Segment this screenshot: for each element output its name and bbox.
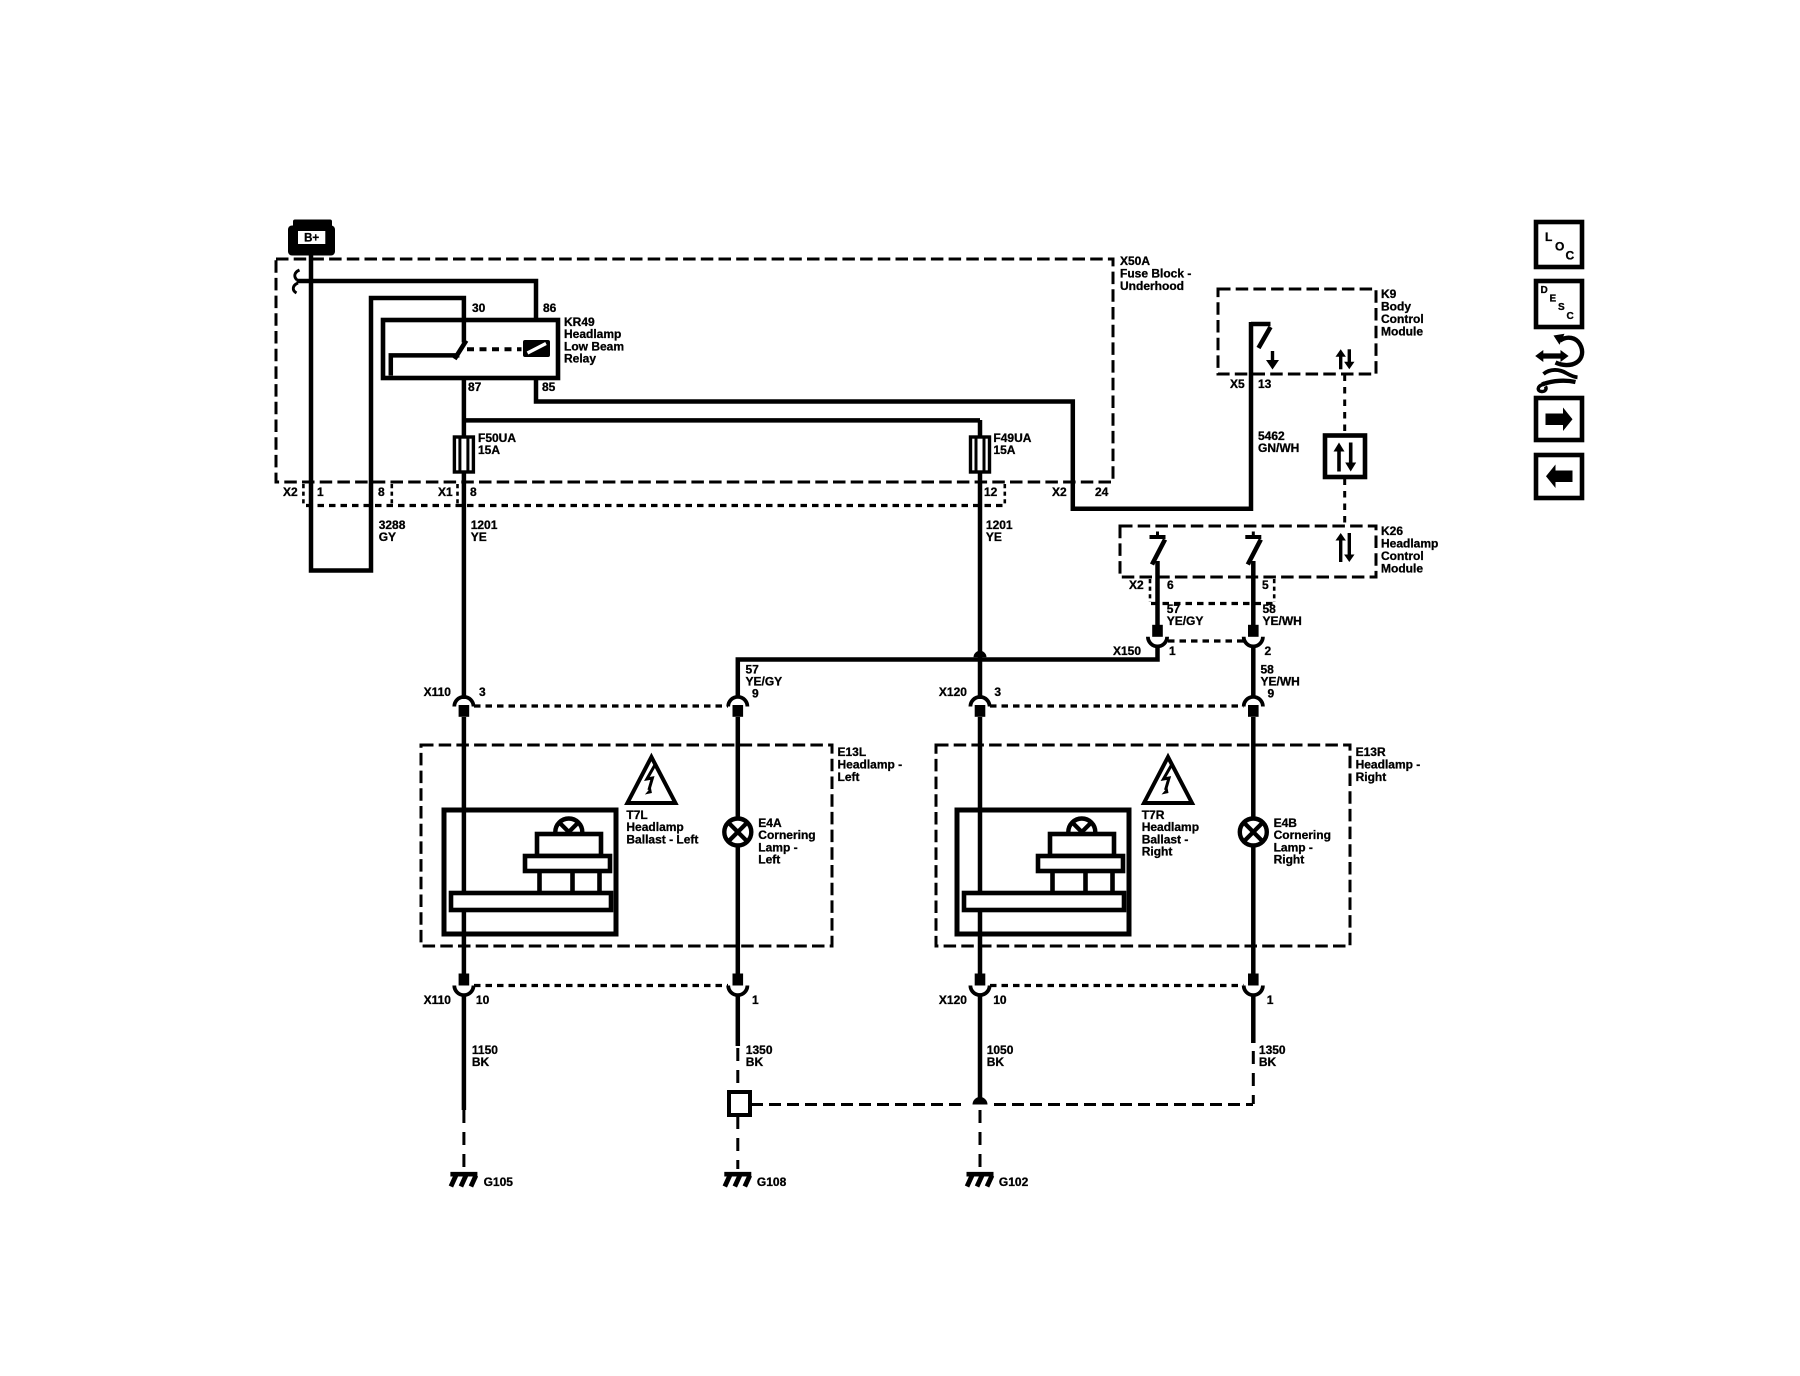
wire label 1150 BK: [472, 1043, 498, 1069]
wire to cornering lamp E4A: [736, 717, 741, 974]
crossover hop at 1050 BK wire: [973, 1097, 988, 1104]
cornering lamp E4B: [1240, 819, 1267, 846]
svg-text:1: 1: [1169, 644, 1176, 658]
K26 serial data arrows: [1336, 533, 1355, 562]
svg-text:85: 85: [542, 380, 556, 394]
wire 1201 YE left down to X110: [462, 472, 467, 700]
relay KR49 label: [564, 315, 624, 366]
svg-text:10: 10: [993, 993, 1007, 1007]
svg-text:Relay: Relay: [564, 352, 596, 366]
wire label 58 YE/WH 9: [1261, 663, 1300, 689]
dotted connector line X110 bottom: [474, 984, 728, 987]
svg-text:BK: BK: [472, 1055, 490, 1069]
wire label 57 YE/GY 9: [746, 663, 783, 689]
svg-text:Right: Right: [1142, 845, 1173, 859]
wire through left ballast: [462, 717, 467, 974]
crossover hop at 1201 YE wire: [974, 651, 987, 658]
wire label 58 YE/WH (upper): [1263, 602, 1302, 628]
svg-text:YE: YE: [471, 530, 487, 544]
wire 58 YE/WH from X150-2 down: [1251, 646, 1256, 697]
wire 1350 BK (E4A): [736, 995, 741, 1046]
svg-text:Module: Module: [1381, 325, 1423, 339]
svg-text:G105: G105: [484, 1175, 514, 1189]
fuse F49UA label: [993, 431, 1031, 457]
svg-text:1: 1: [317, 485, 324, 499]
connector X110-10: [459, 974, 470, 986]
svg-text:5: 5: [1262, 578, 1269, 592]
connector tick pin8: [390, 484, 393, 505]
svg-text:9: 9: [752, 687, 759, 701]
headlamp E13L label: [838, 745, 903, 784]
wire label 1350 BK (E4A): [746, 1043, 773, 1069]
wire label 1350 BK (E4B): [1259, 1043, 1286, 1069]
icon back arrow box: [1536, 455, 1582, 498]
icon wire routing glyph: [1535, 334, 1582, 392]
svg-text:Right: Right: [1356, 770, 1387, 784]
K26 right output switch: [1245, 535, 1261, 539]
connector 1 (E4B): [1248, 974, 1259, 986]
svg-text:8: 8: [470, 485, 477, 499]
wire K26 pin6 to X150-1: [1155, 561, 1160, 626]
svg-text:Left: Left: [838, 770, 860, 784]
icon next arrow box: [1536, 398, 1582, 440]
K26 left output switch: [1150, 535, 1166, 539]
svg-text:86: 86: [543, 301, 557, 315]
wire relay 85 to K9 pin 13: [536, 322, 1251, 509]
X150 connector dotted line: [1168, 639, 1244, 642]
connector tick pin12: [1003, 484, 1006, 505]
ballast T7L label: [626, 808, 698, 846]
wire label 57 YE/GY (upper): [1167, 602, 1204, 628]
wire label 1201 YE (left): [471, 518, 498, 544]
ground G108: [724, 1172, 751, 1177]
ballast T7R: [957, 810, 1129, 934]
svg-text:O: O: [1555, 240, 1564, 254]
svg-text:X120: X120: [939, 685, 967, 699]
svg-text:13: 13: [1258, 377, 1272, 391]
ballast T7L: [444, 810, 616, 934]
connector X150-1: [1152, 625, 1163, 637]
wire to cornering lamp E4B: [1251, 717, 1256, 974]
svg-text:YE/WH: YE/WH: [1261, 675, 1300, 689]
headlamp E13R label: [1356, 745, 1421, 784]
relay switch contact: [391, 320, 467, 376]
svg-text:Left: Left: [758, 853, 780, 867]
svg-text:S: S: [1558, 302, 1565, 313]
ground G105: [450, 1172, 477, 1177]
fusible link symbol: [293, 270, 299, 293]
svg-text:G108: G108: [757, 1175, 787, 1189]
svg-text:15A: 15A: [478, 443, 500, 457]
svg-text:X5: X5: [1230, 377, 1245, 391]
connector 1 (E4A): [733, 974, 744, 986]
headlamp E13R dashed box: [936, 745, 1350, 946]
fuse block label X50A: [1120, 254, 1191, 293]
serial data interface box: [1325, 436, 1365, 478]
headlamp E13L dashed box: [421, 745, 832, 946]
wire 1050 BK: [978, 995, 983, 1100]
svg-text:X120: X120: [939, 993, 967, 1007]
serial data box arrows: [1334, 443, 1357, 472]
wire through right ballast: [978, 717, 983, 974]
dotted connector line X110: [474, 704, 728, 707]
svg-text:C: C: [1567, 311, 1574, 322]
fuse block X50A dashed box: [276, 259, 1113, 482]
connector tick X1: [456, 484, 459, 505]
svg-text:L: L: [1545, 230, 1552, 244]
wire B+ feed down into fuse block: [311, 252, 464, 571]
dashed lead to G102: [979, 1110, 982, 1169]
svg-text:10: 10: [476, 993, 490, 1007]
dashed lead to G108: [736, 1116, 739, 1169]
wire label 3288 GY: [379, 518, 406, 544]
svg-text:E: E: [1550, 294, 1557, 305]
svg-text:2: 2: [1265, 644, 1272, 658]
high voltage triangle left: [627, 757, 675, 803]
svg-text:X150: X150: [1113, 644, 1141, 658]
svg-text:YE/GY: YE/GY: [746, 675, 783, 689]
wire 1350 BK (E4B): [1251, 995, 1256, 1043]
dashed lead to splice: [736, 1048, 739, 1090]
wire K26 pin5 to X150-2: [1251, 561, 1256, 626]
serial data dashed line lower: [1343, 479, 1346, 526]
module K26 dashed box: [1120, 526, 1376, 577]
dashed lead E4B to ground bus: [1252, 1051, 1255, 1104]
dashed ground bus to E4B: [751, 1103, 1253, 1106]
module K9 dashed box: [1218, 289, 1376, 374]
K9 control arrow: [1266, 351, 1279, 370]
K26 connector tick right: [1273, 579, 1276, 602]
wire 1201 YE right down to X120: [978, 472, 983, 700]
high voltage triangle right: [1144, 757, 1192, 803]
svg-text:G102: G102: [999, 1175, 1029, 1189]
svg-text:X1: X1: [438, 485, 453, 499]
svg-text:9: 9: [1268, 687, 1275, 701]
splice junction box: [729, 1092, 750, 1115]
connector X150-2: [1248, 625, 1259, 637]
wire label 1050 BK: [987, 1043, 1014, 1069]
ballast T7R label: [1142, 808, 1199, 859]
module K9 label: [1381, 287, 1424, 339]
svg-text:BK: BK: [1259, 1055, 1277, 1069]
relay armature dashed link: [467, 347, 522, 351]
svg-text:YE: YE: [986, 530, 1002, 544]
connector 9 (left): [728, 697, 747, 707]
cornering lamp E4A label: [758, 816, 815, 867]
svg-text:X2: X2: [1129, 578, 1144, 592]
K9 internal driver switch: [1251, 324, 1271, 348]
wire 1150 BK: [462, 995, 467, 1110]
svg-text:Module: Module: [1381, 562, 1423, 576]
fuse F50UA label: [478, 431, 516, 457]
svg-text:15A: 15A: [993, 443, 1015, 457]
K26 connector tick left: [1149, 579, 1152, 602]
K26 connector dotted line: [1151, 602, 1274, 605]
ground G102: [967, 1172, 994, 1177]
wire relay 87 output: [462, 376, 467, 438]
svg-text:3: 3: [479, 685, 486, 699]
connector X120-3: [970, 697, 989, 707]
wire 57 YE/GY from X150-1 to E4A: [738, 646, 1158, 697]
connector X110-3: [454, 697, 473, 707]
svg-text:X110: X110: [424, 685, 452, 699]
svg-text:87: 87: [468, 380, 482, 394]
cornering lamp E4A: [724, 819, 751, 846]
wire label 1201 YE (right): [986, 518, 1013, 544]
connector row dotted line X1/X2: [306, 504, 1003, 507]
svg-text:30: 30: [472, 301, 486, 315]
svg-text:1: 1: [752, 993, 759, 1007]
relay coil: [523, 340, 550, 357]
svg-text:YE/WH: YE/WH: [1263, 614, 1302, 628]
svg-text:Right: Right: [1274, 853, 1305, 867]
svg-text:24: 24: [1095, 485, 1109, 499]
svg-text:X2: X2: [283, 485, 298, 499]
svg-text:Ballast - Left: Ballast - Left: [626, 832, 698, 846]
connector tick X2: [302, 484, 305, 505]
svg-text:D: D: [1541, 285, 1548, 296]
svg-text:YE/GY: YE/GY: [1167, 614, 1204, 628]
relay KR49 box: [383, 320, 558, 378]
svg-text:Underhood: Underhood: [1120, 279, 1184, 293]
svg-text:BK: BK: [987, 1055, 1005, 1069]
icon DESC box: [1536, 281, 1582, 327]
icon LOC box: [1536, 222, 1582, 267]
svg-text:8: 8: [378, 485, 385, 499]
svg-text:12: 12: [984, 485, 998, 499]
svg-text:B+: B+: [304, 233, 319, 245]
module K26 label: [1381, 524, 1438, 576]
K9 serial data arrows: [1336, 349, 1355, 369]
dotted connector line X120 bottom: [990, 984, 1244, 987]
svg-text:3: 3: [994, 685, 1001, 699]
dashed lead to G105: [462, 1110, 465, 1169]
fuse F50UA: [454, 437, 473, 472]
svg-text:X110: X110: [424, 993, 452, 1007]
cornering lamp E4B label: [1274, 816, 1331, 867]
svg-text:C: C: [1566, 249, 1575, 263]
connector X120-10: [975, 974, 986, 986]
svg-text:X2: X2: [1052, 485, 1067, 499]
connector 9 (right): [1244, 697, 1263, 707]
svg-text:BK: BK: [746, 1055, 764, 1069]
svg-text:GN/WH: GN/WH: [1258, 441, 1299, 455]
serial data dashed line upper: [1343, 375, 1346, 436]
wire 87 junction bus to F49UA: [464, 418, 980, 423]
battery B+ terminal: [288, 220, 335, 256]
wire label 5462 GN/WH: [1258, 429, 1299, 455]
dotted connector line X120: [990, 704, 1244, 707]
svg-text:GY: GY: [379, 530, 396, 544]
wire bus to relay coil 86: [297, 281, 537, 322]
svg-text:6: 6: [1167, 578, 1174, 592]
svg-text:1: 1: [1267, 993, 1274, 1007]
fuse F49UA: [978, 420, 983, 438]
